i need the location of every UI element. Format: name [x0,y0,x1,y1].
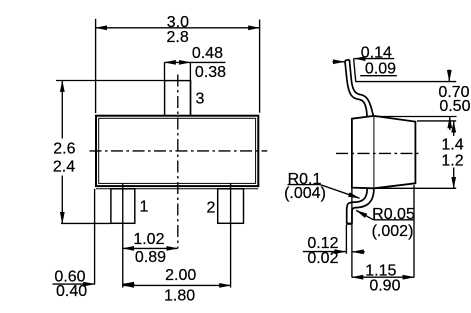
pin 1 [111,189,135,224]
svg-text:3: 3 [196,91,205,108]
dimension 1.4/1.2 bottom reference line [374,187,456,189]
side view: upper lead (pin 3) [345,60,374,118]
dimension 0.14 line [354,58,394,60]
dimension 0.70/0.50 bottom reference line [375,116,457,118]
svg-text:2.4: 2.4 [53,158,75,175]
svg-text:0.02: 0.02 [307,250,338,267]
dimension 2.6/2.4 top extension line [56,80,165,82]
svg-text:(.004): (.004) [284,185,326,202]
dimension 1.4/1.2 top reference line [417,120,456,122]
pin 2 [218,189,244,224]
pin 1 center extension line [122,184,124,288]
dimension 0.14 extension line (right of lead tip) [354,58,356,81]
dimension 2.00/1.80 line [123,284,231,286]
svg-text:0.89: 0.89 [135,249,166,266]
dimension 0.70/0.50 arrows [448,70,450,82]
svg-text:0.90: 0.90 [369,277,400,294]
dimension 1.15/0.90 line [352,276,414,278]
dimension 0.12/0.02 extension line (foot edge) [345,225,347,254]
dimension 0.09 underline [360,75,397,77]
svg-text:1: 1 [140,199,149,216]
dimension 0.60/0.40 extension line [94,189,96,285]
dimension 2.6/2.4 bottom extension line [61,222,111,224]
dimension 0.48/0.38 line [165,61,191,63]
dimension 0.48/0.38 extension lines [164,62,166,80]
svg-text:2: 2 [207,200,216,217]
leader R0.1 [288,184,321,186]
dimension 0.12/0.02 arrows [303,251,346,253]
dimension 3.0/2.8 extension lines [95,19,97,113]
svg-text:1.2: 1.2 [441,152,463,169]
svg-text:2.00: 2.00 [165,267,196,284]
svg-text:0.48: 0.48 [192,45,223,62]
horizontal centerline (front view) [90,150,268,152]
svg-text:0.09: 0.09 [365,60,396,77]
pin 3 tab [165,81,191,116]
side view: lower lead (pins 1,2) [346,188,374,223]
horizontal centerline (side view) [336,152,422,154]
pin 2 center extension line [230,184,232,288]
svg-text:1.02: 1.02 [133,231,164,248]
dimension 0.70/0.50 top reference line [355,81,456,83]
svg-text:2.8: 2.8 [166,29,188,46]
side view: lead plane line through body [373,116,375,188]
dimension 1.02/0.89 line [123,247,178,249]
dimension 1.4/1.2 line [453,121,455,136]
svg-text:1.4: 1.4 [441,136,463,153]
svg-text:(.002): (.002) [372,223,414,240]
dimension 3.0/2.8 line [96,27,260,29]
svg-text:R0.05: R0.05 [372,206,415,223]
side view: package body outline [352,116,416,188]
svg-text:2.6: 2.6 [53,141,75,158]
front view: package body inner outline [99,118,256,183]
vertical centerline (front view) [177,75,179,249]
dimension 1.15/0.90 right extension line [413,185,415,278]
dimension 2.6/2.4 line [61,81,63,139]
svg-text:0.50: 0.50 [439,98,470,115]
svg-text:0.40: 0.40 [56,283,87,300]
svg-text:0.38: 0.38 [195,64,226,81]
svg-text:0.14: 0.14 [361,45,392,62]
dimension 0.60/0.40 line with arrows [53,283,95,285]
svg-text:1.80: 1.80 [164,287,195,304]
leader R0.05 [356,210,373,219]
dimension 0.14 arrow stub (left of lead tip) [332,61,344,63]
front view: package body outer outline [96,116,258,186]
side body left edge extension line [351,188,353,278]
front view: seating line below body [96,188,258,190]
